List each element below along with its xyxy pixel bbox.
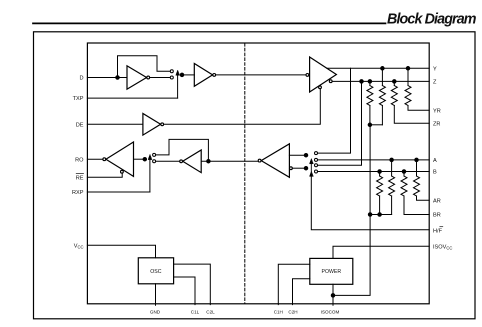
node R5 bottom junction [378, 213, 382, 217]
svg-text:TXP: TXP [73, 96, 84, 102]
svg-text:Z: Z [433, 80, 437, 86]
node R1-R2 junction [368, 123, 372, 127]
switch S2 wiper arrow top [310, 159, 314, 164]
wire DE to driver enable [164, 89, 321, 125]
wire RX line (receiver to U6, crosses barrier) [202, 160, 258, 162]
wire A line [318, 159, 430, 161]
wire S3 control stem [149, 160, 151, 192]
svg-text:YR: YR [433, 108, 441, 114]
switch S3 throw contact 1 [153, 153, 156, 156]
wire U5 input top [289, 154, 306, 156]
svg-text:DE: DE [76, 122, 84, 128]
node DI junction [116, 76, 120, 80]
wire R5-R6 join [370, 214, 392, 216]
wire ISOVCC to POWER [333, 246, 429, 258]
node B-R5 junction [378, 170, 382, 174]
svg-text:OSC: OSC [150, 269, 161, 275]
pin label H/F (F active low) [433, 227, 443, 235]
svg-text:POWER: POWER [321, 269, 341, 275]
wire GND [155, 284, 157, 305]
resistor R2 lead [381, 68, 383, 85]
resistor R6 lead [391, 160, 393, 176]
svg-text:C1H: C1H [274, 310, 283, 315]
bubble U7 output [103, 158, 106, 161]
svg-text:B: B [433, 170, 437, 176]
wire S1 control stem [177, 75, 179, 98]
node Z-R3 junction [393, 80, 397, 84]
switch S3 pole node [143, 157, 147, 161]
wire U1 output to switch [150, 77, 171, 79]
node A-R6 junction [390, 158, 394, 162]
node Y-R4 junction [406, 67, 410, 71]
svg-text:AR: AR [433, 198, 441, 204]
svg-text:ZR: ZR [433, 121, 440, 127]
node RX junction [207, 159, 211, 163]
switch S1 throw contact 2 [170, 76, 173, 79]
svg-text:VCC: VCC [74, 243, 84, 249]
wire RX bypass loop [156, 139, 209, 161]
resistor R7 lead [403, 172, 405, 177]
resistor R4 [405, 86, 411, 106]
block OSC [138, 258, 173, 284]
switch S1 throw contact 1 [170, 70, 173, 73]
node A-R8 junction [415, 158, 419, 162]
wire Z output [332, 80, 429, 82]
switch S3 throw contact 2 [153, 160, 156, 163]
resistor R2 [379, 86, 385, 106]
wire DI bypass loop [118, 56, 171, 78]
switch S1 pole node [180, 73, 184, 77]
wire S3 pole to U7 [134, 158, 145, 160]
header rule [33, 22, 386, 24]
block POWER [310, 258, 353, 284]
resistor R7 [401, 176, 407, 196]
wire C2L [174, 264, 211, 305]
bubble U7 enable [121, 170, 124, 173]
switch S2 wiper arrow bottom [310, 171, 314, 176]
wire R5 bottom [379, 196, 381, 215]
resistor R5 [377, 176, 383, 196]
wire R1 bottom [369, 106, 371, 125]
node Z-R1 junction [368, 80, 372, 84]
inner block box [87, 43, 429, 304]
switch S2 throw contact 2 [315, 158, 318, 161]
bubble U3 input [306, 74, 309, 77]
pin label RE (active low) [76, 174, 84, 182]
resistor R6 [389, 176, 395, 196]
resistor R1 [367, 86, 373, 106]
switch S2 throw contact 3 [315, 164, 318, 167]
svg-text:Block Diagram: Block Diagram [387, 12, 477, 28]
bubble U2 output [213, 74, 216, 77]
resistor R5 lead [379, 172, 381, 177]
bubble U1 output [147, 76, 150, 79]
wire U5 input bottom [292, 167, 306, 169]
buffer U7 (RO output) [106, 142, 134, 176]
resistor R3 lead [393, 81, 395, 85]
svg-text:BR: BR [433, 213, 441, 219]
svg-text:ISOCOM: ISOCOM [321, 310, 340, 315]
resistor R8 lead [416, 160, 418, 176]
svg-text:C2L: C2L [206, 310, 215, 315]
bubble U4 output [161, 123, 164, 126]
wire RO output [87, 158, 103, 160]
wire H/F control [311, 176, 429, 229]
wire U2 to driver (crosses barrier) [216, 74, 306, 76]
wire U6 output to switch [156, 160, 180, 162]
svg-text:GND: GND [150, 310, 161, 315]
resistor R1 lead [369, 81, 371, 85]
svg-text:C1L: C1L [191, 310, 200, 315]
wire S1 pole to U2 [182, 74, 194, 76]
wire R3 to ZR [394, 106, 429, 124]
buffer U6 [183, 150, 202, 173]
receiver U5 [261, 144, 289, 178]
wire C1H [278, 264, 310, 304]
svg-text:Y: Y [433, 66, 437, 72]
buffer U4 (DE buffer) [143, 114, 161, 136]
svg-text:C2H: C2H [288, 310, 297, 315]
wire Y tap to switch [318, 68, 351, 153]
node Y-R2 junction [381, 67, 385, 71]
driver U3 [310, 57, 337, 92]
resistor R4 lead [407, 68, 409, 85]
svg-text:RO: RO [75, 157, 84, 163]
switch S1 wiper arrow [176, 70, 180, 75]
wire RXP [87, 191, 149, 193]
wire R4 to YR [408, 106, 429, 111]
bubble U5 inverting input [290, 167, 293, 170]
svg-text:ISOVCC: ISOVCC [433, 244, 452, 250]
buffer U1 (DI buffer) [127, 66, 147, 89]
switch S2 pole node top [304, 153, 308, 157]
node ISOCOM junction [331, 294, 335, 298]
wire DI input [87, 77, 127, 79]
svg-text:RXP: RXP [72, 190, 84, 196]
wire long vertical to ISOCOM [333, 125, 370, 296]
node join-long-vertical junction [368, 213, 372, 217]
bubble U5 output [258, 159, 261, 162]
wire POWER to ISOCOM [332, 284, 334, 305]
svg-text:RE: RE [76, 175, 84, 181]
node Z tap junction [360, 80, 364, 84]
resistor R8 [414, 176, 420, 196]
switch S3 wiper arrow [148, 155, 152, 160]
svg-text:A: A [433, 158, 437, 164]
wire R2 bottom [381, 106, 383, 125]
buffer U2 [194, 64, 212, 87]
wire R1-R2 join [370, 124, 383, 126]
wire VCC to OSC [87, 245, 155, 258]
wire Y output [327, 67, 429, 69]
switch S2 throw contact 4 [315, 170, 318, 173]
wire R8 to AR [417, 196, 430, 200]
wire C2H [293, 279, 310, 305]
bubble U6 output [180, 160, 183, 163]
wire RE to enable [87, 173, 122, 177]
svg-text:D: D [79, 76, 83, 82]
wire R6 bottom [391, 196, 393, 215]
wire B line [318, 171, 430, 173]
wire TXP [87, 97, 177, 99]
wire C1L [174, 277, 195, 305]
switch S2 throw contact 1 [315, 152, 318, 155]
isolation barrier (dashed) [244, 44, 246, 304]
svg-text:H/F: H/F [433, 228, 443, 234]
bubble U3 inverting output Z [329, 80, 332, 83]
node B-R7 junction [402, 170, 406, 174]
resistor R3 [391, 86, 397, 106]
wire Z tap to switch [318, 81, 362, 165]
wire DE input [87, 123, 142, 125]
wire R7 to BR [404, 196, 429, 215]
bubble U3 enable [319, 86, 322, 89]
wire S2 control stem [310, 164, 312, 172]
switch S2 pole node bottom [304, 166, 308, 170]
